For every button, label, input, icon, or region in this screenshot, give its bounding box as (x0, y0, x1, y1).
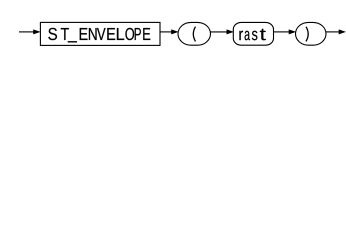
box ST_ENVELOPE (40, 22, 160, 45)
arrowhead into ) terminal (289, 29, 296, 34)
underscore of ST_ENVELOPE (68, 41, 77, 42)
exit arrowhead (339, 29, 346, 34)
wire exit segment (326, 31, 340, 33)
wire box to ( (160, 31, 172, 33)
terminal rast (233, 22, 273, 45)
wire entry segment (19, 31, 34, 33)
terminal ( (178, 22, 211, 45)
terminal ) (296, 22, 327, 45)
wire rast to ) (274, 31, 290, 33)
arrowhead into ST_ENVELOPE box (33, 29, 40, 34)
arrowhead into rast terminal (227, 29, 234, 34)
arrowhead into ( terminal (171, 29, 178, 34)
wire ( to rast (211, 31, 228, 33)
